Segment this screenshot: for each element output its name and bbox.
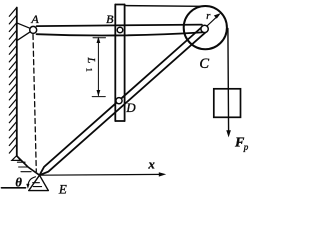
pin circle B bbox=[117, 27, 123, 33]
theta arc with arrow bbox=[28, 177, 36, 186]
wall foot triangle bbox=[12, 156, 20, 161]
svg-text:A: A bbox=[30, 12, 39, 26]
node label E bbox=[58, 181, 67, 196]
Fp label bbox=[234, 136, 249, 152]
incline surface to E bbox=[17, 156, 40, 175]
svg-text:1: 1 bbox=[84, 68, 93, 72]
hatches under E triangle bbox=[33, 183, 42, 187]
support triangle at E bbox=[29, 175, 49, 190]
svg-text:p: p bbox=[243, 142, 249, 152]
svg-text:D: D bbox=[125, 100, 136, 115]
svg-text:C: C bbox=[199, 56, 209, 72]
dashed line A to E bbox=[33, 35, 36, 172]
node label B bbox=[106, 12, 114, 26]
Fp arrowhead bbox=[226, 130, 231, 137]
ground line left of E bbox=[2, 187, 26, 189]
wall bbox=[16, 8, 18, 157]
node label D bbox=[125, 100, 136, 115]
dimension L1 bbox=[92, 38, 105, 97]
diagonal bar E-C bbox=[40, 27, 207, 176]
svg-text:r: r bbox=[206, 10, 211, 22]
svg-text:x: x bbox=[147, 157, 155, 172]
rope + force line bbox=[227, 29, 230, 134]
svg-text:E: E bbox=[58, 181, 67, 196]
pin circle A bbox=[30, 26, 37, 33]
svg-text:θ: θ bbox=[15, 175, 22, 189]
node label A bbox=[30, 12, 39, 26]
incline hatches bbox=[17, 162, 31, 172]
bar B-D bbox=[115, 5, 124, 122]
weight box bbox=[214, 89, 241, 118]
svg-text:B: B bbox=[106, 12, 114, 26]
bracket at A bbox=[18, 23, 32, 40]
radius arrow r bbox=[207, 15, 219, 26]
rope top from bar B to pulley bbox=[126, 5, 201, 8]
node label C bbox=[199, 56, 209, 72]
pin circle C bbox=[201, 25, 208, 32]
beam A-C bbox=[37, 25, 202, 36]
L1 label bbox=[84, 57, 96, 72]
pin circle D bbox=[116, 98, 122, 104]
svg-text:L: L bbox=[85, 57, 96, 64]
x axis bbox=[40, 173, 163, 176]
pulley circle bbox=[184, 6, 227, 49]
wall hatching bbox=[9, 8, 16, 153]
